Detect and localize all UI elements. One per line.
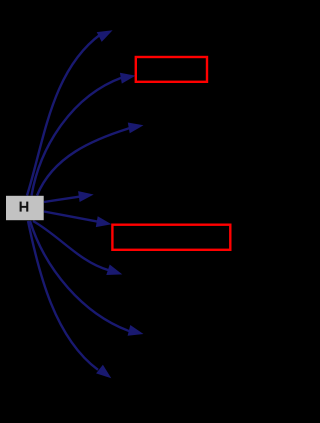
node red box 1	[136, 57, 207, 82]
wire edge 8	[28, 221, 111, 378]
wire edge 3	[37, 123, 144, 196]
wire edge 1	[27, 30, 113, 195]
letter H drawn as strokes	[20, 202, 22, 212]
wire edge 7	[30, 221, 144, 336]
wire edge 5	[44, 212, 112, 228]
wire edge 2	[32, 73, 136, 196]
node red box 2	[112, 225, 230, 250]
node H	[6, 196, 44, 220]
wire edge 6	[33, 221, 122, 275]
wire edge 4	[44, 191, 94, 202]
